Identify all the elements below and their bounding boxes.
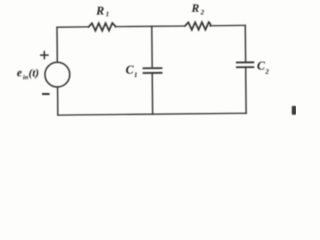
wire bottom-left vertical (source bottom to bottom rail) bbox=[57, 87, 59, 115]
node A (junction of R1, R2, C1) bbox=[151, 26, 153, 66]
plus polarity mark bbox=[41, 52, 48, 59]
svg-text:(t): (t) bbox=[29, 67, 40, 79]
page artifact blob at right edge bbox=[292, 106, 296, 115]
capacitor C1 bbox=[143, 68, 161, 73]
svg-text:R: R bbox=[191, 3, 200, 15]
wire right vertical top (to C2) bbox=[244, 25, 246, 60]
wire top rail middle segment (R1 to R2) bbox=[116, 25, 185, 28]
voltage source U1 circle bbox=[45, 62, 70, 87]
svg-text:e: e bbox=[17, 67, 22, 79]
wire top rail left segment bbox=[57, 26, 89, 28]
wire C2 bottom lead bbox=[245, 68, 247, 113]
minus polarity mark bbox=[43, 93, 48, 95]
wire top-left vertical (source top to top rail) bbox=[56, 27, 58, 62]
svg-text:1: 1 bbox=[134, 71, 138, 79]
capacitor C2 bbox=[237, 62, 254, 67]
svg-text:2: 2 bbox=[200, 8, 205, 16]
svg-text:1: 1 bbox=[106, 10, 110, 18]
resistor R1 bbox=[89, 23, 116, 31]
wire bottom rail bbox=[58, 113, 246, 115]
svg-text:2: 2 bbox=[264, 68, 269, 76]
resistor R2 bbox=[185, 22, 210, 30]
wire top rail right segment (R2 to right corner) bbox=[210, 24, 245, 26]
wire C1 bottom lead bbox=[151, 74, 153, 115]
svg-text:R: R bbox=[95, 4, 104, 18]
